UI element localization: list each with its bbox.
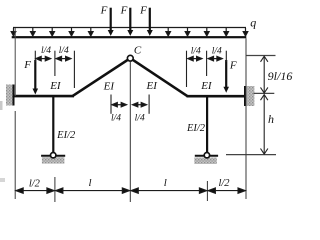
center dim arrows (112, 103, 147, 107)
svg-text:l: l (88, 177, 91, 189)
svg-text:EI: EI (200, 80, 213, 92)
force F3 arrow (147, 8, 153, 36)
svg-text:l/4: l/4 (41, 46, 51, 56)
svg-text:l/2: l/2 (29, 179, 41, 190)
svg-text:C: C (134, 45, 142, 57)
right diagonal EI (130, 58, 187, 96)
center extension line below C (129, 61, 131, 202)
right dim arrows (188, 56, 222, 60)
dim 9l/16 line (261, 56, 268, 93)
force F2 arrow (127, 8, 133, 36)
edge artifacts (0, 101, 3, 110)
svg-text:EI/2: EI/2 (186, 123, 206, 134)
left dim arrows (36, 56, 71, 60)
svg-text:l/4: l/4 (191, 46, 201, 56)
dim h line (261, 95, 268, 155)
right support base (195, 155, 218, 157)
svg-text:EI: EI (103, 81, 116, 93)
left wall face (13, 85, 15, 106)
left dim group ticks (35, 51, 74, 88)
right beam EI (187, 95, 247, 98)
extension line left end lower (14, 111, 16, 199)
svg-text:F: F (120, 5, 128, 17)
extension line left end upper (14, 28, 16, 96)
extension line below left column (54, 177, 56, 202)
svg-text:l/4: l/4 (212, 46, 222, 56)
extension line below right column (206, 181, 208, 201)
svg-text:l/4: l/4 (111, 114, 121, 124)
tick at support level (226, 154, 276, 156)
svg-text:F: F (229, 60, 237, 72)
svg-text:9l/16: 9l/16 (268, 69, 293, 83)
tick at beam level (254, 92, 275, 94)
force F1 arrow (108, 8, 114, 36)
right support hinge (204, 153, 209, 158)
svg-text:F: F (139, 5, 147, 17)
svg-text:EI: EI (146, 80, 159, 92)
svg-text:l/2: l/2 (218, 178, 230, 189)
svg-text:q: q (250, 16, 256, 30)
left column EI/2 (52, 97, 54, 152)
right wall face (244, 86, 247, 106)
load reference line (13, 27, 246, 29)
svg-text:EI: EI (49, 80, 62, 92)
right column EI/2 (206, 97, 208, 152)
distributed load arrows q (11, 28, 248, 36)
svg-text:l/4: l/4 (59, 46, 69, 56)
center dim group ticks (111, 95, 149, 114)
left support hinge (51, 153, 56, 158)
right support hatch (194, 158, 217, 164)
svg-text:l: l (164, 177, 167, 189)
side force F right arrow (223, 60, 229, 93)
side force F left arrow (33, 60, 39, 95)
right dim group ticks (187, 51, 227, 87)
left beam EI (14, 95, 74, 98)
bottom dim line arrows (16, 188, 246, 193)
left support hatch (42, 157, 65, 163)
extension line right end (245, 38, 247, 199)
hinge C (127, 55, 133, 61)
top beam (12, 36, 247, 38)
svg-text:EI/2: EI/2 (56, 130, 76, 141)
left support base (41, 155, 65, 157)
left wall hatch (6, 85, 13, 106)
svg-text:F: F (100, 5, 108, 17)
right wall hatch (247, 86, 254, 106)
svg-text:F: F (23, 59, 31, 71)
left diagonal EI (73, 58, 131, 96)
right dim column: tick at C level (246, 55, 276, 57)
svg-text:h: h (268, 112, 274, 126)
svg-text:l/4: l/4 (135, 114, 145, 124)
